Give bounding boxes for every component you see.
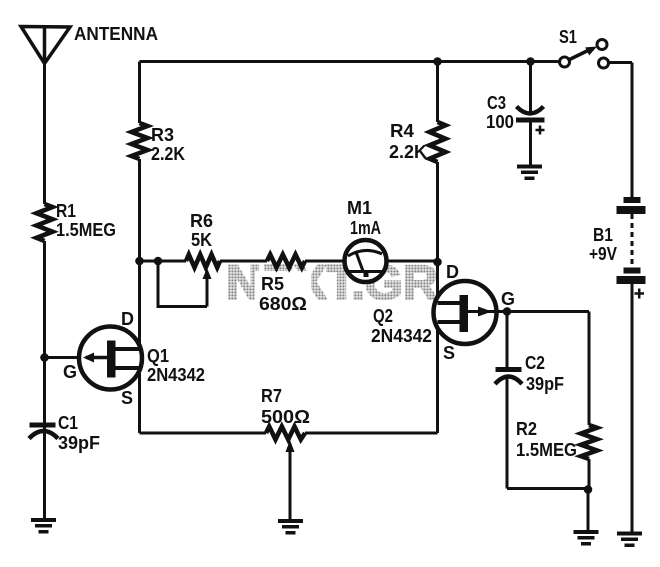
capacitor C2 <box>495 353 564 394</box>
wire top rail <box>140 60 560 63</box>
meter M1 <box>345 198 387 282</box>
transistor Q2 <box>371 262 515 363</box>
capacitor C1 <box>29 413 100 453</box>
svg-text:100: 100 <box>486 112 514 132</box>
svg-text:Q1: Q1 <box>147 346 169 366</box>
svg-text:39pF: 39pF <box>526 374 564 394</box>
svg-text:1mA: 1mA <box>350 218 381 238</box>
wire C2 branch <box>507 312 588 489</box>
svg-text:C3: C3 <box>487 93 506 113</box>
resistor R7 (pot) <box>266 427 305 440</box>
svg-text:2N4342: 2N4342 <box>147 365 205 385</box>
svg-text:S1: S1 <box>559 27 577 47</box>
node bypass junction <box>154 257 163 266</box>
svg-text:S: S <box>121 388 133 408</box>
svg-text:S: S <box>443 343 455 363</box>
wire left rail <box>138 62 141 434</box>
ground (C3) <box>517 165 542 181</box>
ground (C1/antenna) <box>31 518 56 534</box>
svg-text:R7: R7 <box>261 386 282 406</box>
switch S1 <box>559 27 609 68</box>
node top wire / C3 <box>526 57 535 66</box>
node Q2 gate / C2 <box>503 307 512 316</box>
wire R7 wiper <box>289 452 292 519</box>
wire Q1 gate <box>45 356 84 359</box>
svg-text:C2: C2 <box>525 353 545 373</box>
wire junction to ground <box>587 490 590 531</box>
svg-text:2.2K: 2.2K <box>389 142 427 162</box>
ground (R2/C2) <box>574 530 599 546</box>
svg-text:39pF: 39pF <box>58 433 100 453</box>
ground (R7 wiper) <box>278 519 303 535</box>
svg-text:1.5MEG: 1.5MEG <box>56 220 116 240</box>
wire antenna vertical <box>43 64 46 519</box>
battery B1 <box>589 197 646 299</box>
svg-text:ANTENNA: ANTENNA <box>74 24 158 44</box>
ground (battery) <box>617 532 642 548</box>
resistor R1 <box>37 204 53 241</box>
node right rail / meter row <box>433 258 442 267</box>
svg-text:+9V: +9V <box>589 244 617 264</box>
svg-text:2N4342: 2N4342 <box>371 326 432 346</box>
node top wire / R4 rail <box>433 57 442 66</box>
svg-text:R1: R1 <box>56 201 76 221</box>
wire battery to ground <box>631 284 634 532</box>
svg-text:680Ω: 680Ω <box>259 294 307 314</box>
resistor R6 (pot) <box>186 255 220 268</box>
svg-text:M1: M1 <box>347 198 372 218</box>
resistor R3 <box>132 123 148 159</box>
svg-text:B1: B1 <box>593 225 613 245</box>
wire meter row <box>140 260 438 263</box>
resistor R2 <box>581 425 597 459</box>
capacitor C3 <box>486 93 545 135</box>
svg-text:D: D <box>446 262 459 282</box>
svg-text:R4: R4 <box>390 121 414 141</box>
svg-text:1.5MEG: 1.5MEG <box>516 440 577 460</box>
svg-text:R3: R3 <box>151 125 174 145</box>
svg-text:R6: R6 <box>190 211 213 231</box>
antenna <box>21 27 70 64</box>
svg-text:G: G <box>501 289 515 309</box>
svg-text:C1: C1 <box>58 413 78 433</box>
wire Q2 gate row <box>468 312 589 490</box>
svg-text:G: G <box>63 362 77 382</box>
wire C3 branch <box>529 62 532 166</box>
svg-text:500Ω: 500Ω <box>261 407 310 427</box>
transistor Q1 <box>63 309 205 408</box>
svg-text:5K: 5K <box>191 230 212 250</box>
svg-text:R5: R5 <box>261 274 284 294</box>
wire switch to battery <box>609 63 632 198</box>
node R2/C2 bottom junction <box>584 485 593 494</box>
svg-text:2.2K: 2.2K <box>151 144 185 164</box>
wire bottom rail <box>140 432 438 435</box>
svg-text:D: D <box>121 309 134 329</box>
wire R6 wiper bypass <box>158 261 207 307</box>
resistor R5 <box>267 255 305 268</box>
wire right rail <box>436 62 439 434</box>
svg-text:R2: R2 <box>516 419 537 439</box>
svg-text:Q2: Q2 <box>373 306 393 326</box>
node antenna/gate junction <box>40 353 49 362</box>
node left rail / meter row <box>135 257 144 266</box>
resistor R4 <box>430 122 446 162</box>
